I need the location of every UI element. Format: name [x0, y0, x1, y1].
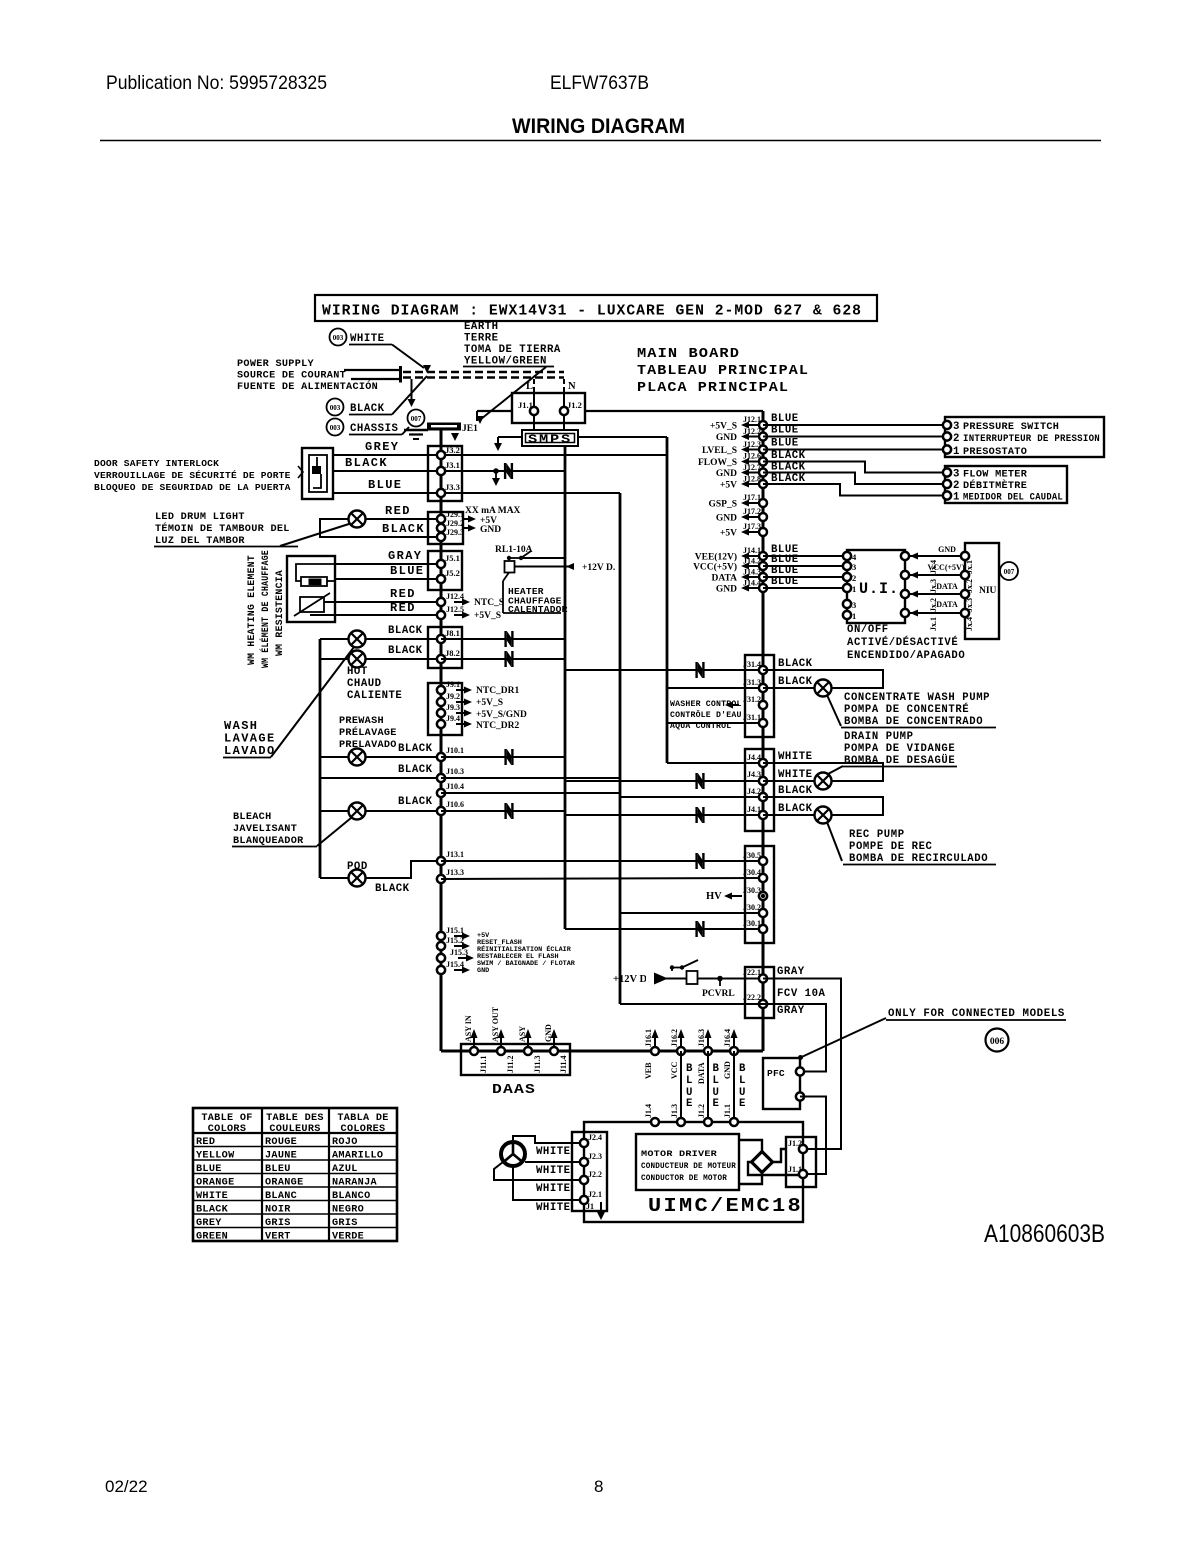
svg-text:GND: GND: [716, 585, 737, 595]
leader bleach to lamp: [317, 818, 351, 846]
wire J30.1 from bus N: [565, 928, 763, 930]
svg-text:NIU: NIU: [979, 586, 997, 596]
J15.1 arrow: [454, 935, 465, 937]
motor symbol (wheel): [501, 1142, 525, 1166]
wire J4.3 from bus N: [565, 780, 763, 782]
svg-text:J10.6: J10.6: [446, 800, 464, 809]
svg-text:J1.2: J1.2: [697, 1104, 706, 1118]
L conductor drop (dashed): [533, 379, 535, 393]
svg-text:WM HEATING ELEMENT: WM HEATING ELEMENT: [247, 555, 258, 665]
svg-text:GSP_S: GSP_S: [708, 500, 737, 510]
pin UIMC J1.2: [704, 1118, 712, 1126]
leader concentrate pump: [827, 695, 841, 726]
svg-text:BLACK: BLACK: [375, 883, 410, 895]
svg-text:AZUL: AZUL: [332, 1164, 358, 1175]
svg-text:N: N: [568, 381, 576, 392]
DAAS pin J11.4 with arrow: [553, 1033, 555, 1050]
heater leader and label: [503, 573, 509, 582]
pin J2.1: [580, 1196, 588, 1204]
svg-text:BLACK: BLACK: [778, 658, 813, 670]
svg-text:J29.1: J29.1: [446, 510, 464, 519]
svg-text:ROJO: ROJO: [332, 1137, 358, 1148]
svg-text:WHITE: WHITE: [536, 1183, 571, 1195]
wire J31.1 from bus 667: [667, 722, 763, 724]
svg-text:J5.1: J5.1: [445, 553, 460, 563]
wire WHITE motor to J2.4: [513, 1136, 584, 1143]
UIMC J1 output box: [786, 1137, 816, 1187]
wire BLACK J12.8: [763, 484, 947, 496]
pin J31.1: [759, 719, 767, 727]
diamond symbol: [752, 1152, 773, 1173]
DAAS pin J11.3 with arrow: [527, 1033, 529, 1050]
svg-text:BLUE: BLUE: [771, 438, 799, 450]
svg-text:GND: GND: [477, 967, 489, 975]
pin J2.2: [580, 1176, 588, 1184]
svg-text:BLANC: BLANC: [265, 1191, 297, 1202]
svg-text:BLACK: BLACK: [388, 625, 423, 637]
connector J4 box: [745, 749, 774, 831]
wire BLACK J3.1: [333, 470, 565, 472]
svg-text:GREY: GREY: [365, 440, 399, 454]
svg-text:PLACA PRINCIPAL: PLACA PRINCIPAL: [637, 380, 789, 396]
pin J13.3: [437, 875, 445, 883]
svg-text:WIRING DIAGRAM: WIRING DIAGRAM: [512, 115, 685, 138]
leader earth text to JE1: [481, 367, 546, 419]
wire L inside J1: [533, 393, 535, 407]
pin J12.4: [437, 598, 445, 606]
svg-text:J9.2: J9.2: [446, 692, 460, 701]
wire BLACK J10.6: [320, 810, 441, 812]
pin J5.1: [437, 560, 445, 568]
flow meter pins: [943, 468, 951, 476]
svg-text:J16.4: J16.4: [723, 1029, 732, 1047]
wire GRAY J22.2 to PFC: [763, 1004, 826, 1072]
svg-text:J17.2: J17.2: [743, 507, 761, 516]
svg-text:PRESSURE SWITCH: PRESSURE SWITCH: [963, 422, 1059, 433]
bus from SMPS (x=667): [577, 436, 667, 438]
svg-text:ASY: ASY: [518, 1026, 527, 1042]
svg-text:BLACK: BLACK: [345, 456, 388, 470]
document header: [105, 73, 1105, 1496]
svg-text:ON/OFF: ON/OFF: [847, 624, 889, 636]
svg-text:DOOR SAFETY INTERLOCK: DOOR SAFETY INTERLOCK: [94, 458, 219, 469]
pin J31.4: [759, 666, 767, 674]
svg-text:LAVADO: LAVADO: [224, 744, 276, 758]
pin J30.5: [759, 857, 767, 865]
connector J9 box: [428, 683, 462, 735]
svg-text:TÉMOIN DE TAMBOUR DEL: TÉMOIN DE TAMBOUR DEL: [155, 521, 290, 535]
svg-text:FLOW_S: FLOW_S: [698, 458, 737, 468]
UIMC board box: [584, 1122, 803, 1222]
suppressor J10.6: [504, 803, 513, 819]
svg-text:J14.1: J14.1: [743, 546, 761, 555]
svg-text:ONLY FOR CONNECTED MODELS: ONLY FOR CONNECTED MODELS: [888, 1008, 1065, 1020]
svg-text:FCV 10A: FCV 10A: [777, 988, 825, 1000]
svg-text:BLOQUEO DE SEGURIDAD DE LA PUE: BLOQUEO DE SEGURIDAD DE LA PUERTA: [94, 482, 291, 493]
svg-text:ENCENDIDO/APAGADO: ENCENDIDO/APAGADO: [847, 650, 965, 662]
wire WHITE motor to J2.3: [525, 1161, 584, 1163]
lamp hot 2: [349, 651, 366, 668]
pin J29.3: [437, 533, 445, 541]
svg-text:J3.1: J3.1: [445, 460, 460, 470]
svg-text:BOMBA DE DESAGÜE: BOMBA DE DESAGÜE: [844, 754, 955, 767]
svg-text:VERT: VERT: [265, 1231, 291, 1242]
relay FCV contacts: [670, 965, 674, 969]
wire BLUE J14.3: [763, 576, 847, 578]
suppressor J8.1: [504, 631, 513, 647]
svg-text:02/22: 02/22: [105, 1477, 148, 1496]
svg-text:J16.3: J16.3: [697, 1029, 706, 1047]
wire motor driver top output: [739, 1140, 762, 1152]
wire GREY J3.2: [333, 454, 667, 456]
J14.4 signal arrow GND: [746, 587, 758, 589]
pin J1.1: [530, 407, 538, 415]
node 007 circle right: [1000, 562, 1018, 580]
bus N (x=565): [564, 446, 567, 929]
svg-text:TABLA DE: TABLA DE: [337, 1113, 388, 1124]
svg-text:GRAY: GRAY: [777, 1005, 805, 1017]
svg-text:PRÉLAVAGE: PRÉLAVAGE: [339, 725, 397, 739]
motor driver box: [636, 1134, 739, 1190]
pin UIMC J1.4: [651, 1118, 659, 1126]
NIU pins: [961, 552, 969, 560]
svg-text:Jx.3: Jx.3: [929, 579, 938, 593]
svg-text:2: 2: [953, 433, 960, 445]
svg-text:BLACK: BLACK: [778, 803, 813, 815]
pin J2.4: [580, 1139, 588, 1147]
wire BLACK J8.2: [320, 658, 441, 660]
suppressor on J3.1 wire: [504, 463, 513, 479]
wire BLUE J16.4 to J1.1: [733, 1051, 735, 1122]
wire WHITE motor to J2.1: [513, 1166, 584, 1200]
svg-text:003: 003: [330, 424, 341, 432]
svg-text:VEB: VEB: [644, 1062, 653, 1079]
pin J10.6: [437, 807, 445, 815]
leader wash to lamp: [271, 647, 354, 757]
svg-text:CALENTADOR: CALENTADOR: [508, 604, 568, 615]
svg-text:PRESOSTATO: PRESOSTATO: [963, 447, 1027, 458]
svg-text:NTC_DR2: NTC_DR2: [476, 721, 520, 731]
pin J12.6: [759, 458, 767, 466]
svg-text:CONDUCTEUR DE MOTEUR: CONDUCTEUR DE MOTEUR: [641, 1162, 736, 1171]
J9.3 arrow +5V_S/GND: [456, 712, 467, 714]
pin J16.1 with arrow: [654, 1033, 656, 1050]
wire BLUE J16.2 to J1.3: [680, 1051, 682, 1122]
svg-text:INTERRUPTEUR DE PRESSION: INTERRUPTEUR DE PRESSION: [963, 434, 1100, 445]
svg-text:BLACK: BLACK: [350, 403, 385, 415]
wire J22.2 from bus BLUE: [620, 1003, 763, 1005]
wire J10.1 to bus N: [441, 756, 565, 758]
wire U.I. to NIU VCC: [905, 574, 965, 576]
pin J31.2: [759, 701, 767, 709]
suppressor J30.5: [695, 853, 704, 869]
svg-text:2: 2: [852, 573, 856, 583]
pin J5.2: [437, 575, 445, 583]
svg-text:J11.1: J11.1: [479, 1055, 488, 1073]
svg-text:3: 3: [953, 469, 960, 481]
svg-text:BLACK: BLACK: [398, 743, 433, 755]
door interlock switch box: [302, 448, 333, 499]
svg-text:ELFW7637B: ELFW7637B: [550, 73, 649, 94]
svg-text:AMARILLO: AMARILLO: [332, 1150, 383, 1161]
wire RED NTC J12.5: [310, 614, 441, 616]
svg-text:3: 3: [953, 421, 960, 433]
wire J10.6 to bus N: [441, 810, 565, 812]
connector J8 box: [428, 627, 462, 668]
pressure switch pins: [943, 421, 951, 429]
svg-text:POMPA DE CONCENTRÉ: POMPA DE CONCENTRÉ: [844, 702, 969, 716]
suppressor J30.1: [695, 921, 704, 937]
svg-text:GRIS: GRIS: [332, 1218, 358, 1229]
svg-text:J8.2: J8.2: [445, 648, 460, 658]
lamp rec pump: [815, 807, 832, 824]
wire BLACK J12.6: [763, 462, 947, 473]
svg-text:TABLE OF: TABLE OF: [201, 1113, 252, 1124]
wire U.I. to NIU DATA2: [905, 612, 965, 614]
wire J4.1 from bus N: [565, 814, 763, 816]
wire RED J29.1: [366, 518, 441, 520]
pin J17.1: [759, 499, 767, 507]
svg-text:CALIENTE: CALIENTE: [347, 690, 402, 702]
wire diamond to UIMC J1.1: [748, 1162, 803, 1175]
svg-text:L: L: [686, 1075, 693, 1087]
leader to drum lamp: [280, 523, 352, 546]
svg-text:J3.3: J3.3: [445, 482, 460, 492]
pin J15.1: [437, 932, 445, 940]
wire J4.4 from bus 667: [667, 762, 763, 764]
svg-text:+5V: +5V: [720, 481, 737, 491]
svg-text:J22.1: J22.1: [743, 968, 761, 977]
pin PFC 2: [796, 1092, 804, 1100]
svg-text:BOMBA DE CONCENTRADO: BOMBA DE CONCENTRADO: [844, 716, 983, 728]
svg-text:J16.1: J16.1: [644, 1029, 653, 1047]
svg-text:J13.1: J13.1: [446, 850, 464, 859]
svg-text:GRAY: GRAY: [777, 966, 805, 978]
svg-text:BLEACH: BLEACH: [233, 812, 271, 823]
earth wire yellow/green dashed pair: [403, 371, 564, 373]
J12.6 signal arrow FLOW_S: [746, 461, 758, 463]
pin J9.4: [437, 720, 445, 728]
DAAS pin J11.1 with arrow: [473, 1033, 475, 1050]
pin J17.3: [759, 528, 767, 536]
svg-text:GND: GND: [480, 525, 501, 535]
svg-text:GND: GND: [716, 469, 737, 479]
J15.3 arrow: [458, 957, 469, 959]
svg-text:Publication No: 5995728325: Publication No: 5995728325: [106, 73, 327, 94]
wire +12V to J22.1: [666, 978, 687, 980]
wire BLUE J14.4: [763, 587, 847, 589]
svg-text:WHITE: WHITE: [536, 1146, 571, 1158]
pod feed wire: [320, 877, 349, 879]
DAAS box: [461, 1044, 570, 1075]
J12.5 signal arrow +5V_S: [454, 614, 465, 616]
U.I. right pins: [901, 552, 909, 560]
wire J13.3 to J30.4: [441, 878, 763, 879]
pin J31.3: [759, 684, 767, 692]
earth terminal JE1: [427, 423, 461, 431]
svg-text:J2.1: J2.1: [588, 1190, 602, 1199]
wire J1.2 to SMPS: [563, 415, 565, 430]
lamp LED drum light: [349, 511, 366, 528]
svg-text:BLANCO: BLANCO: [332, 1191, 370, 1202]
svg-text:COLORS: COLORS: [208, 1124, 246, 1135]
lamp prewash: [349, 749, 366, 766]
wire BLACK J10.1: [320, 756, 441, 758]
heater fuse symbol: [296, 564, 335, 581]
svg-text:SWIM / BAIGNADE / FLOTAR: SWIM / BAIGNADE / FLOTAR: [477, 960, 576, 968]
svg-text:J1.3: J1.3: [670, 1104, 679, 1118]
svg-text:LVEL_S: LVEL_S: [702, 446, 737, 456]
drain pump loop wire: [763, 763, 883, 781]
pin J29.1: [437, 515, 445, 523]
pin J4.1: [759, 811, 767, 819]
wire J30.2 from bus BLUE: [620, 912, 763, 914]
svg-text:Jx.3: Jx.3: [965, 598, 974, 612]
svg-text:J17.1: J17.1: [743, 493, 761, 502]
svg-text:DATA: DATA: [936, 600, 958, 609]
svg-text:Jx.2: Jx.2: [965, 579, 974, 593]
JE1 down arrow: [451, 433, 459, 441]
svg-text:1: 1: [852, 584, 856, 594]
pin J15.2: [437, 942, 445, 950]
svg-text:VCC: VCC: [670, 1061, 679, 1079]
pin J14.3: [759, 573, 767, 581]
svg-text:B: B: [686, 1063, 693, 1075]
suppressor J10.1: [504, 749, 513, 765]
svg-text:J1.2: J1.2: [567, 400, 582, 410]
svg-text:YELLOW: YELLOW: [196, 1150, 235, 1161]
svg-text:WHITE: WHITE: [196, 1191, 228, 1202]
connector J1 box: [512, 393, 585, 423]
wire BLUE J12.1: [763, 424, 947, 426]
J14.1 signal arrow VEE(12V): [746, 555, 758, 557]
svg-text:003: 003: [333, 334, 344, 342]
wire SMPS aux to bus 667: [565, 454, 667, 456]
heater thermostat symbol: [300, 597, 324, 612]
wire GRAY J22.1 to UIMC J1.2: [763, 979, 841, 1150]
svg-text:E: E: [686, 1098, 693, 1110]
svg-text:JAVELISANT: JAVELISANT: [233, 824, 297, 835]
svg-text:J11.3: J11.3: [533, 1055, 542, 1073]
svg-text:WHITE: WHITE: [536, 1202, 571, 1214]
pin J16.3 with arrow: [707, 1033, 709, 1050]
svg-text:Jx.1: Jx.1: [929, 617, 938, 631]
svg-text:Jx.1: Jx.1: [965, 560, 974, 574]
pin J3.3: [437, 489, 445, 497]
svg-text:NARANJA: NARANJA: [332, 1177, 377, 1188]
svg-text:A10860603B: A10860603B: [984, 1220, 1105, 1248]
svg-text:J10.3: J10.3: [446, 767, 464, 776]
J29.1 signal arrow +5V: [462, 518, 471, 520]
svg-text:DATA: DATA: [711, 574, 737, 584]
wire BLUE J16.3 to J1.2: [707, 1051, 709, 1122]
wire J1.1 to SMPS: [533, 415, 535, 430]
svg-text:PCVRL: PCVRL: [702, 989, 735, 999]
svg-text:ORANGE: ORANGE: [265, 1177, 303, 1188]
svg-text:LED DRUM LIGHT: LED DRUM LIGHT: [155, 512, 245, 523]
pin UIMC J1.1: [799, 1170, 807, 1178]
J12.3 signal arrow LVEL_S: [746, 449, 758, 451]
svg-text:BLACK: BLACK: [382, 522, 425, 536]
svg-text:POMPE DE REC: POMPE DE REC: [849, 841, 933, 853]
J15.4 arrow: [454, 969, 465, 971]
wire BLACK J10.3: [320, 777, 441, 779]
pin J12.3: [759, 446, 767, 454]
svg-text:Jx.4: Jx.4: [929, 560, 938, 574]
door interlock contact symbol: [316, 457, 318, 466]
table of colors: [193, 1108, 397, 1241]
pin J9.2: [437, 698, 445, 706]
J12.7 signal arrow GND: [746, 472, 758, 474]
svg-text:RED: RED: [390, 601, 416, 615]
pin J4.2: [759, 793, 767, 801]
svg-text:PRELAVADO: PRELAVADO: [339, 740, 397, 751]
svg-text:FLOW METER: FLOW METER: [963, 470, 1028, 481]
svg-text:BLACK: BLACK: [388, 645, 423, 657]
svg-text:J13.3: J13.3: [446, 868, 464, 877]
suppressor J8.2: [504, 651, 513, 667]
pin J16.4 with arrow: [733, 1033, 735, 1050]
connector J30 box: [745, 846, 774, 943]
svg-text:TERRE: TERRE: [464, 333, 499, 345]
wire GRAY J5.1: [335, 563, 441, 565]
svg-text:BLEU: BLEU: [265, 1164, 291, 1175]
svg-text:+5V_S/GND: +5V_S/GND: [476, 710, 527, 720]
wire BLACK J8.1: [320, 638, 441, 640]
svg-text:+5V_S: +5V_S: [474, 611, 501, 621]
flow meter box: [945, 466, 1067, 503]
svg-text:BLUE: BLUE: [771, 413, 799, 425]
pin J9.1: [437, 686, 445, 694]
svg-text:L: L: [713, 1075, 720, 1087]
svg-text:J2.4: J2.4: [588, 1133, 602, 1142]
wire J31.3 from bus 667: [667, 687, 763, 689]
svg-text:J9.1: J9.1: [446, 680, 460, 689]
pin J17.2: [759, 513, 767, 521]
pin J12.2: [759, 433, 767, 441]
svg-text:J17.3: J17.3: [743, 522, 761, 531]
svg-text:UIMC/EMC18: UIMC/EMC18: [648, 1195, 803, 1217]
diagram title box: [315, 295, 877, 321]
svg-text:PFC: PFC: [767, 1068, 785, 1079]
SMPS box: [522, 430, 578, 446]
connector J3 box: [428, 446, 462, 501]
svg-text:WM ÉLÉMENT DE CHAUFFAGE: WM ÉLÉMENT DE CHAUFFAGE: [258, 550, 272, 668]
pin UIMC J1.1: [730, 1118, 738, 1126]
leader drain pump: [828, 766, 843, 774]
N conductor drop (dashed): [563, 379, 565, 393]
svg-text:JE1: JE1: [462, 424, 478, 434]
wire J10.4 to bus BLUE: [441, 792, 620, 794]
J12.4 signal arrow NTC_S: [454, 601, 465, 603]
svg-text:GND: GND: [716, 514, 737, 524]
leader only-for-connected-models: [798, 1055, 803, 1060]
svg-text:J15.3: J15.3: [450, 948, 468, 957]
pressure switch box: [945, 417, 1104, 457]
pin J15.3: [437, 954, 445, 962]
svg-text:BLACK: BLACK: [398, 764, 433, 776]
wire BLUE J5.2: [335, 578, 441, 580]
svg-text:WASHER CONTROL: WASHER CONTROL: [670, 700, 742, 709]
pin J4.4: [759, 759, 767, 767]
svg-text:J29.3: J29.3: [446, 528, 464, 537]
svg-text:J2.3: J2.3: [588, 1152, 602, 1161]
wire RED NTC J12.4: [324, 601, 441, 603]
svg-text:DRAIN PUMP: DRAIN PUMP: [844, 731, 914, 743]
pin J3.2: [437, 451, 445, 459]
connector J5 box: [428, 551, 462, 590]
svg-text:+12V D.: +12V D.: [582, 563, 615, 573]
